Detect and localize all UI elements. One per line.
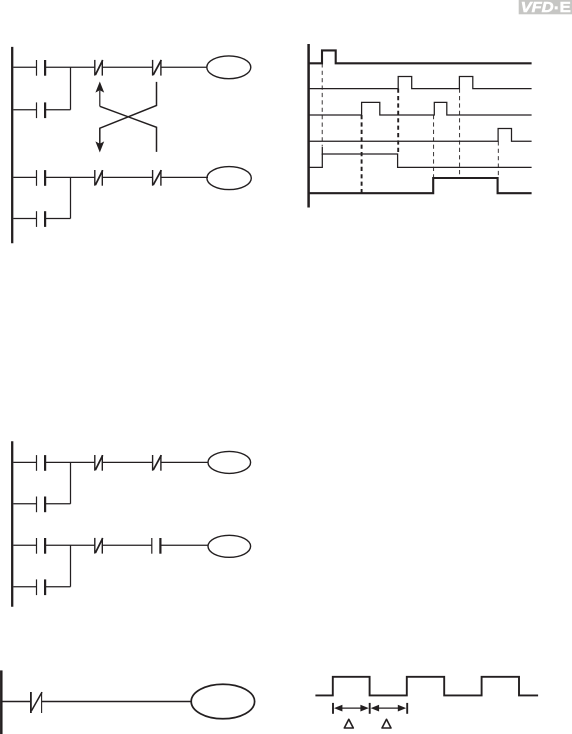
- interlock cross wire B: from below NC2 of rung 1 diagonally down-left: [100, 82, 157, 145]
- output coil, bottom rung: [191, 684, 254, 719]
- measure tick 3: [406, 703, 408, 714]
- measure tick 1: [332, 703, 334, 714]
- parallel NO contact (seal-in), rung 4: [37, 579, 46, 595]
- wire: rail to parallel NO contact, rung 2 branch: [13, 218, 36, 220]
- dashed timing line at W2 second rising edge: [459, 89, 461, 178]
- dashed timing line (thick) at W2 first rising edge / W5 falling edge: [397, 89, 399, 154]
- interlock cross wire A: from up-arrow diagonally down to below NC2 of rung 2: [100, 106, 157, 152]
- wire: NO to NC1, rung 3: [45, 461, 95, 463]
- waveform W1 (input pulse, thick): [309, 50, 532, 63]
- svg-text:VFD: VFD: [521, 0, 554, 16]
- wire: parallel contact to branch node, rung 3: [45, 503, 70, 505]
- wire: NO to NC, rung 4: [45, 544, 95, 546]
- NC contact, rung 4: [95, 538, 103, 554]
- output coil, rung 1: [207, 56, 251, 79]
- NO contact, rung 3: [37, 455, 46, 471]
- NC contact 1 (interlock b-contact), rung 1: [95, 60, 103, 76]
- wire: NC1 to NC2, rung 3: [102, 461, 152, 463]
- solid tail of W5 rising edge: [321, 147, 323, 155]
- wire: rail to parallel NO contact, rung 4 branch: [13, 586, 36, 588]
- VFD-E logo plate: [519, 0, 572, 16]
- wire: rail to NC contact, bottom rung: [3, 701, 31, 703]
- NC contact 1 (interlock b-contact), rung 2: [95, 170, 103, 186]
- branch node vertical wire, rung 2: [70, 177, 72, 218]
- wire: rail to NO contact, rung 4: [13, 544, 36, 546]
- waveform W5 (latched output): [309, 154, 532, 167]
- NO contact 2, rung 4: [152, 538, 161, 554]
- output coil, rung 3: [208, 451, 251, 473]
- svg-text:E: E: [560, 0, 572, 16]
- branch node vertical wire, rung 1: [70, 67, 72, 109]
- branch node vertical wire, rung 4: [70, 545, 72, 586]
- NO contact, rung 1: [37, 60, 46, 76]
- wire: rail to NO contact, rung 3: [13, 461, 36, 463]
- wire: NC2 to coil, rung 3: [161, 461, 208, 463]
- waveform W6 (second output, thick): [309, 178, 532, 193]
- measure tick 2: [369, 703, 371, 714]
- NC contact 2, rung 2: [153, 170, 162, 186]
- waveform W2 with two pulses: [309, 77, 532, 89]
- branch node vertical wire, rung 3: [70, 462, 72, 503]
- NC contact (flicker), bottom rung: [31, 692, 42, 713]
- NC contact 2, rung 1: [153, 60, 162, 76]
- left power rail (bottom rung): [0, 670, 3, 734]
- wire: NO contact to NC contact, rung 1 (through branch node): [45, 66, 95, 68]
- double-headed arrow, interval 1: [334, 705, 369, 712]
- dashed timing line at W3 second rising edge / W6 rising edge: [433, 115, 435, 178]
- left power rail (middle ladder): [11, 441, 13, 606]
- output coil, rung 2: [207, 167, 251, 190]
- wire: NC contact to coil, bottom rung: [42, 701, 192, 703]
- dashed timing line (thick) at W3 first rising edge: [361, 115, 363, 193]
- flicker square wave: [315, 677, 538, 696]
- NO contact, rung 2: [37, 170, 46, 186]
- wire: NC1 to NC2, rung 2: [102, 176, 152, 178]
- timing diagram vertical axis: [307, 44, 310, 208]
- wire: NC2 to coil, rung 2: [161, 176, 208, 178]
- wire: NO2 to coil, rung 4: [160, 544, 208, 546]
- double-headed arrow, interval 2: [371, 705, 407, 712]
- parallel NO contact (seal-in), rung 1: [37, 102, 46, 118]
- wire: parallel contact to branch node, rung 2: [45, 218, 70, 220]
- interlock up-arrow (points to NC contact 1 of rung 1): [95, 82, 104, 107]
- interlock down-arrow (points to NC contact 1 of rung 2): [95, 141, 104, 152]
- wire: rail to parallel NO contact, rung 1 branch: [13, 109, 36, 111]
- left power rail (top ladder): [11, 47, 13, 243]
- wire: NC to second NO contact, rung 4: [102, 544, 152, 546]
- NO contact, rung 4: [37, 538, 46, 554]
- delta symbol, interval 1: [344, 719, 353, 728]
- wire: parallel contact to branch node, rung 4: [45, 586, 70, 588]
- wire: NC2 to coil, rung 1: [161, 66, 207, 68]
- parallel NO contact (seal-in), rung 3: [37, 497, 46, 513]
- wire: rail to parallel NO contact, rung 3 branch: [13, 503, 36, 505]
- delta symbol, interval 2: [382, 719, 391, 728]
- wire: NC1 to NC2, rung 1: [102, 66, 152, 68]
- waveform W4 with one pulse: [309, 129, 532, 142]
- wire: parallel contact to branch node, rung 1: [45, 109, 70, 111]
- dashed timing line at W4 rising edge / W6 falling edge: [497, 141, 499, 178]
- waveform W3 with two pulses: [309, 102, 532, 115]
- output coil, rung 4: [208, 535, 251, 557]
- parallel NO contact (seal-in), rung 2: [37, 211, 46, 227]
- wire: NO contact to NC contact, rung 2: [45, 176, 95, 178]
- NC contact 1, rung 3: [95, 455, 103, 471]
- wire: rail to first NO contact, rung 1: [13, 66, 36, 68]
- NC contact 2, rung 3: [153, 455, 162, 471]
- dashed timing line at W1 rising edge: [321, 63, 323, 146]
- wire: rail to first NO contact, rung 2: [13, 176, 36, 178]
